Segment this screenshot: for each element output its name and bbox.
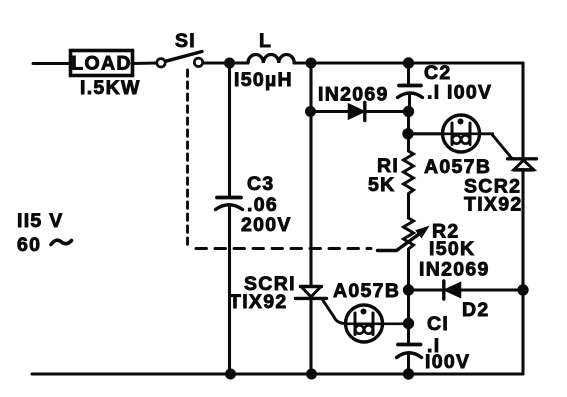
SCR2 TIX92 [464, 159, 537, 216]
capacitor C3 .06 200V [216, 173, 292, 374]
load LOAD 1.5KW [71, 51, 141, 100]
node junction lamp1 lead [402, 128, 413, 139]
svg-text:A057B: A057B [333, 280, 400, 302]
svg-text:D2: D2 [462, 299, 490, 321]
switch S1 [157, 30, 203, 67]
node A junction (top of C3 branch) [224, 58, 235, 69]
capacitor C2 .1 100V [398, 62, 493, 112]
potentiometer R2 150K [378, 218, 476, 290]
wire load to switch [132, 61, 157, 65]
node junction diode cathode at C2 branch [403, 106, 414, 117]
wire C3 branch upper [228, 63, 231, 196]
svg-text:L: L [259, 30, 272, 52]
source label 115V 60Hz [17, 210, 72, 256]
node bottom of C1 branch [403, 368, 414, 379]
wire top rail left segment [33, 62, 70, 65]
svg-text:5K: 5K [368, 174, 396, 196]
wire SCR2 gate lead [480, 134, 512, 159]
svg-text:II5 V: II5 V [17, 210, 64, 232]
diode IN2069 (top) [311, 84, 408, 121]
dashed mechanical link vertical from S1 [186, 70, 189, 246]
wire SCR1 branch upper [309, 63, 312, 286]
svg-text:SI: SI [175, 30, 196, 52]
resistor R1 5K [368, 134, 414, 218]
svg-text:.06: .06 [247, 194, 278, 216]
diode D2 IN2069 [409, 259, 524, 322]
svg-text:A057B: A057B [424, 156, 491, 178]
wire right edge vertical (SCR2 branch upper) [521, 63, 524, 158]
node junction diode anode (left end of IN2069) [305, 106, 316, 117]
svg-text:C3: C3 [247, 173, 275, 195]
svg-text:LOAD: LOAD [71, 53, 131, 75]
wire right edge vertical (SCR2 branch lower) [521, 170, 524, 374]
svg-text:200V: 200V [241, 214, 292, 236]
wire switch to node A [203, 61, 248, 64]
capacitor C1 .1 100V [397, 290, 471, 374]
wire C2 branch between diode node and lamp node [407, 112, 410, 135]
inductor L 150uH [234, 30, 294, 91]
wire inductor to top-right corner [294, 61, 523, 64]
svg-text:I50K: I50K [429, 238, 475, 260]
lamp A057B (bottom neon) [333, 280, 403, 342]
SCR1 TIX92 [229, 273, 327, 313]
svg-text:CI: CI [427, 313, 449, 335]
svg-text:I.5KW: I.5KW [80, 77, 141, 99]
node bottom of C3 branch [225, 369, 236, 380]
svg-text:I00V: I00V [447, 82, 492, 104]
svg-text:60: 60 [17, 234, 41, 256]
svg-text:TIX92: TIX92 [464, 194, 523, 216]
dashed mechanical link horizontal to R2 [196, 247, 371, 250]
lamp A057B (top neon) [408, 115, 491, 178]
node bottom of SCR1 branch [306, 369, 317, 380]
node B junction (top of SCR1 branch) [306, 58, 317, 69]
wire SCR1 gate lead [322, 299, 346, 324]
svg-text:I00V: I00V [425, 351, 470, 373]
node C junction (top of C2 branch) [403, 57, 414, 68]
svg-text:IN2069: IN2069 [318, 84, 389, 106]
node junction D2 left [403, 284, 414, 295]
node junction D2 right [517, 284, 528, 295]
svg-text:I50µH: I50µH [234, 69, 293, 91]
svg-text:.I: .I [427, 82, 440, 104]
wire SCR1 branch lower [309, 299, 312, 375]
node junction lamp2 lead at C1 branch [403, 318, 414, 329]
svg-text:IN2069: IN2069 [419, 259, 490, 281]
wire bottom rail [32, 372, 523, 375]
svg-text:TIX92: TIX92 [229, 291, 288, 313]
